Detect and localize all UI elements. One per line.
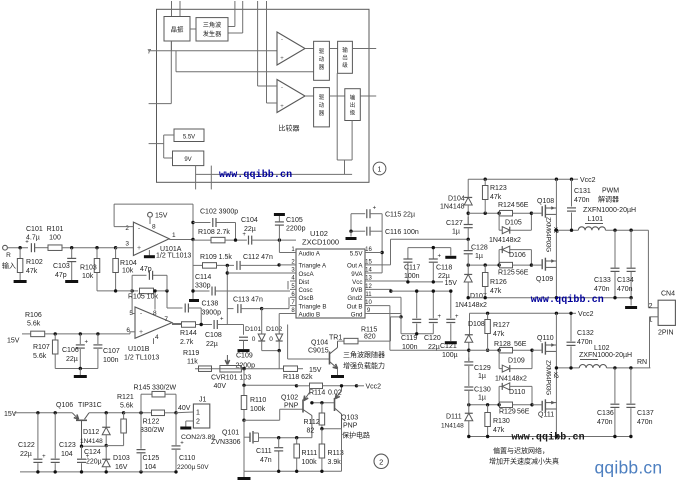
svg-text:D106: D106 — [509, 252, 526, 259]
regulator 9V box — [173, 151, 204, 166]
svg-text:D111: D111 — [446, 414, 462, 421]
U102 pin 16 5.5V — [365, 252, 372, 254]
wire audio A into pin 1 — [278, 240, 280, 252]
svg-text:40V: 40V — [178, 405, 191, 412]
svg-text:2.7k: 2.7k — [180, 339, 194, 346]
wire input line — [7, 247, 28, 249]
wire pin16 stub — [372, 252, 383, 254]
resistor R113 — [321, 429, 323, 444]
svg-text:8: 8 — [152, 224, 156, 231]
U102 pin 6 OscB — [290, 296, 296, 298]
svg-text:12: 12 — [365, 284, 372, 290]
ground bias network — [79, 369, 81, 376]
svg-text:PWM: PWM — [602, 188, 619, 195]
svg-text:D110: D110 — [509, 389, 525, 396]
svg-text:C120: C120 — [424, 335, 441, 342]
svg-text:C137: C137 — [637, 410, 654, 417]
resistor R118 — [284, 366, 298, 372]
svg-text:0: 0 — [252, 336, 256, 343]
resistor R130 — [487, 405, 489, 412]
svg-text:470n: 470n — [597, 419, 613, 426]
svg-text:R127: R127 — [493, 322, 510, 329]
svg-text:R129: R129 — [499, 409, 516, 416]
svg-text:1N4148: 1N4148 — [440, 204, 465, 211]
wire pin10 Out B down — [372, 305, 390, 307]
svg-text:PNP: PNP — [284, 403, 299, 410]
node C115 gnd side — [351, 213, 360, 215]
wire Q103 collector to divider — [322, 428, 342, 430]
diode D109 — [502, 365, 510, 372]
node C111 top — [277, 436, 280, 439]
svg-text:TR1: TR1 — [329, 335, 342, 342]
resistor R107 — [54, 334, 56, 340]
wire gate row upper — [468, 212, 497, 214]
svg-text:4: 4 — [155, 334, 159, 341]
svg-text:R101: R101 — [47, 226, 64, 233]
svg-text:D103: D103 — [113, 455, 130, 462]
svg-text:+: + — [280, 104, 284, 110]
node D108 bottom — [467, 349, 470, 352]
node gate Q109 — [530, 263, 533, 266]
circled number 2 — [374, 454, 388, 468]
svg-text:15V: 15V — [445, 280, 458, 287]
resistor R124 — [500, 210, 513, 216]
svg-text:3: 3 — [125, 241, 129, 248]
wire R110 node to Q102 base — [244, 419, 280, 421]
svg-text:C9015: C9015 — [308, 348, 329, 355]
svg-text:47n: 47n — [260, 457, 272, 464]
U102 pin 13 Vcc — [365, 280, 372, 282]
U102 pin 11 Gnd2 — [365, 296, 372, 298]
U102 pin 10 Out B — [365, 305, 372, 307]
wire Q101 drain rail — [259, 437, 297, 439]
svg-text:+: + — [280, 56, 284, 62]
svg-text:Q104: Q104 — [311, 340, 328, 347]
svg-text:+: + — [137, 245, 141, 252]
wire U101B pin4 stub — [153, 338, 155, 344]
node R111 top — [295, 436, 298, 439]
label Vcc2 lower — [570, 312, 576, 314]
wire bias rail to R105 — [97, 290, 132, 292]
svg-text:J1: J1 — [199, 397, 207, 404]
resistor R103 — [95, 246, 98, 249]
diode D104 — [464, 197, 472, 205]
svg-text:R145: R145 — [134, 385, 151, 392]
svg-text:1: 1 — [196, 410, 200, 417]
comparator B triangle — [277, 80, 305, 113]
svg-text:出: 出 — [350, 101, 356, 109]
capacitor C132 — [570, 313, 572, 341]
svg-text:Gnd: Gnd — [351, 311, 363, 318]
resistor R102 — [19, 248, 21, 258]
svg-text:三角波: 三角波 — [203, 21, 222, 29]
svg-text:级: 级 — [342, 61, 348, 69]
potentiometer CVR101 — [220, 366, 242, 373]
svg-text:16V: 16V — [115, 464, 128, 471]
connector J1 — [193, 404, 209, 428]
svg-text:D105: D105 — [505, 220, 522, 227]
wire R115 to gnd pin — [390, 330, 392, 341]
capacitor C122 — [37, 413, 39, 459]
resistor R105 feedback — [132, 290, 138, 292]
circled number 1 — [373, 162, 386, 175]
svg-text:Q106: Q106 — [56, 402, 73, 409]
driver block A — [314, 41, 330, 80]
svg-text:C132: C132 — [577, 330, 594, 337]
resistor R123 — [484, 179, 486, 185]
node R105 right — [165, 289, 168, 292]
svg-text:10: 10 — [365, 300, 372, 306]
svg-text:56E: 56E — [516, 270, 529, 277]
wire U101B pin8 supply — [154, 291, 156, 310]
node R104 top — [114, 246, 117, 249]
U102 pin 3 OscA — [290, 272, 296, 274]
svg-text:1µ: 1µ — [452, 229, 460, 236]
svg-text:保护电路: 保护电路 — [342, 431, 370, 440]
wire to Q104 base — [287, 325, 289, 359]
svg-text:www.qqibb.cn: www.qqibb.cn — [512, 432, 585, 444]
svg-text:2: 2 — [125, 225, 129, 232]
svg-text:2: 2 — [196, 419, 200, 426]
svg-text:TIP31C: TIP31C — [78, 402, 102, 409]
wire pin13 Vcc rail — [372, 280, 408, 282]
svg-text:1N4148x2: 1N4148x2 — [489, 237, 521, 244]
ground stub below C114 node — [189, 299, 199, 302]
ground C109 — [238, 349, 250, 352]
capacitor C112 — [236, 261, 238, 270]
U102 pin 5 Cosc — [290, 288, 296, 290]
capacitor C138 — [166, 291, 168, 308]
svg-text:Q109: Q109 — [536, 276, 553, 283]
svg-text:偏置与迟放网络，: 偏置与迟放网络， — [493, 446, 549, 455]
svg-text:C115 22µ: C115 22µ — [385, 212, 415, 219]
resistor R126 — [484, 265, 486, 272]
svg-text:2: 2 — [649, 303, 653, 310]
svg-text:ZXM64P03G: ZXM64P03G — [545, 217, 552, 252]
svg-text:器: 器 — [319, 110, 325, 117]
svg-text:+: + — [139, 329, 143, 336]
svg-text:ZXFN1000-20µH: ZXFN1000-20µH — [583, 207, 636, 214]
wire 5.5V decoupling vertical — [381, 214, 383, 273]
capacitor 47p feedback — [131, 275, 133, 291]
svg-text:Q102: Q102 — [281, 395, 298, 402]
resistor R144 — [182, 322, 196, 328]
svg-text:驱: 驱 — [319, 94, 325, 101]
capacitor C128 — [467, 239, 469, 250]
output bus upper bridge — [555, 179, 557, 298]
node OscA — [226, 271, 229, 274]
wire comparator B output — [305, 95, 314, 97]
wire base to Q103 — [312, 402, 335, 404]
regulator 5.5V box — [174, 129, 204, 142]
svg-text:动: 动 — [319, 56, 325, 63]
svg-text:R107: R107 — [33, 344, 50, 351]
wire gate row lower of lower bridge — [469, 404, 500, 406]
wire pin8 to D102 — [279, 313, 290, 315]
svg-text:22µ: 22µ — [244, 226, 256, 233]
capacitor C116 — [351, 230, 365, 232]
svg-text:47k: 47k — [26, 268, 38, 275]
svg-text:Dist: Dist — [299, 279, 310, 286]
svg-text:+: + — [180, 441, 184, 447]
node R105 left — [130, 289, 133, 292]
svg-text:100µ: 100µ — [442, 352, 458, 359]
node U101A output — [191, 238, 194, 241]
wire J1 pin2 ground — [186, 420, 194, 422]
svg-text:22µ: 22µ — [428, 344, 440, 351]
inductor L102 — [579, 364, 606, 367]
svg-text:56E: 56E — [517, 409, 530, 416]
triangle wave generator block 三角波发生器 — [196, 18, 228, 41]
svg-text:14: 14 — [365, 268, 372, 274]
wire pin9 Gnd — [372, 313, 402, 315]
svg-text:C134: C134 — [617, 277, 634, 284]
capacitor C109 — [239, 336, 248, 338]
wire diode bottoms — [262, 350, 280, 352]
node diode bottom junction — [278, 349, 281, 352]
resistor R145 330/2W — [140, 394, 142, 413]
svg-text:47k: 47k — [493, 331, 505, 338]
svg-text:C123: C123 — [59, 442, 76, 449]
U102 pin 1 Audio A — [290, 252, 296, 254]
wire 9VB rail — [391, 290, 451, 292]
svg-text:R123: R123 — [490, 185, 507, 192]
svg-text:C112 47n: C112 47n — [243, 254, 273, 261]
svg-text:22µ: 22µ — [66, 356, 78, 363]
node C113 right — [260, 307, 263, 310]
svg-text:330/2W: 330/2W — [152, 385, 177, 392]
resistor R119 — [199, 366, 212, 372]
capacitor C125 — [140, 413, 142, 449]
svg-text:级: 级 — [350, 109, 356, 117]
svg-text:动: 动 — [319, 102, 325, 109]
svg-text:330/2W: 330/2W — [140, 427, 165, 434]
ground C103 — [65, 280, 78, 283]
svg-text:5.6k: 5.6k — [120, 403, 134, 410]
svg-text:1µ: 1µ — [478, 373, 486, 380]
U102 pin 7 Triangle B — [290, 305, 296, 307]
ground U101A — [148, 250, 150, 256]
svg-text:CON2/3.89: CON2/3.89 — [181, 434, 215, 441]
svg-text:OscB: OscB — [299, 295, 314, 302]
resistor R127 — [487, 313, 489, 319]
svg-text:47k: 47k — [490, 194, 502, 201]
wire comparator A output — [305, 48, 314, 50]
U102 pin 8 Audio B — [290, 313, 296, 315]
svg-text:10k: 10k — [122, 268, 134, 275]
wire 5.5V 9V common left brace — [164, 134, 174, 136]
resistor R128 — [500, 347, 513, 353]
svg-text:+: + — [455, 314, 459, 320]
svg-text:3.9k: 3.9k — [328, 459, 342, 466]
diode D107 — [467, 265, 469, 274]
comparator A triangle — [277, 32, 305, 65]
svg-text:1N4148: 1N4148 — [80, 438, 103, 445]
wire U101A output node down — [192, 240, 194, 301]
svg-text:R122: R122 — [143, 419, 160, 426]
node C103 — [70, 246, 73, 249]
node C106 top — [79, 332, 82, 335]
wire gate row upper of lower bridge — [469, 349, 500, 351]
capacitor C118 — [432, 248, 434, 259]
svg-text:82: 82 — [307, 428, 315, 435]
U102 pin 4 Dist — [290, 280, 296, 282]
U102 pin 12 9VB — [365, 288, 372, 290]
svg-text:47k: 47k — [490, 288, 502, 295]
resistor R125 — [500, 262, 513, 268]
svg-text:三角波跟随器: 三角波跟随器 — [343, 350, 385, 359]
svg-text:8: 8 — [153, 310, 157, 317]
resistor R122 330/2W — [152, 410, 165, 416]
svg-text:R110: R110 — [250, 397, 266, 404]
wire pin6 — [130, 331, 135, 333]
capacitor C110 — [175, 413, 177, 445]
wire gate row lower of upper bridge — [468, 264, 497, 266]
wire L102 to output caps — [607, 367, 651, 369]
svg-text:R103: R103 — [80, 265, 97, 272]
svg-text:470n: 470n — [637, 419, 653, 426]
U102 pin 15 Out A — [365, 264, 372, 266]
svg-text:C104: C104 — [241, 217, 258, 224]
supply 15V terminal U101A — [148, 212, 153, 217]
svg-text:输: 输 — [350, 94, 356, 102]
wire CVR to R118 — [280, 368, 284, 370]
svg-text:Vcc: Vcc — [352, 279, 362, 286]
U102 pin 14 9VA — [365, 272, 372, 274]
capacitor C105 — [278, 226, 280, 241]
node pin2 entry — [277, 263, 280, 266]
resistor R101 — [48, 245, 62, 251]
wire pin11 Gnd2 — [372, 296, 402, 298]
svg-text:R115: R115 — [361, 327, 377, 334]
wire J1 pin1 to 40V — [176, 411, 193, 414]
wire upper bridge ground rail — [468, 297, 631, 299]
capacitor C129 — [468, 358, 470, 362]
svg-text:10k: 10k — [82, 273, 94, 280]
node C102 left — [191, 221, 194, 224]
capacitor C120 — [432, 291, 434, 318]
svg-text:C107: C107 — [103, 348, 120, 355]
svg-text:C129: C129 — [474, 365, 491, 372]
svg-text:R118 62k: R118 62k — [283, 374, 313, 381]
svg-text:820: 820 — [364, 334, 376, 341]
svg-text:15V: 15V — [7, 338, 20, 345]
node R127 bottom — [486, 349, 489, 352]
svg-text:15V: 15V — [4, 411, 17, 418]
wire lower bridge vcc rail — [470, 312, 570, 314]
svg-text:11: 11 — [365, 292, 372, 298]
capacitor C131 — [570, 178, 573, 181]
svg-text:PNP: PNP — [343, 423, 358, 430]
svg-text:C108: C108 — [205, 332, 222, 339]
wire 40V rail — [124, 412, 152, 414]
svg-text:qqibb.cn: qqibb.cn — [595, 458, 663, 478]
svg-text:470n: 470n — [617, 286, 633, 293]
capacitor C124 — [82, 445, 107, 447]
svg-text:+: + — [373, 206, 377, 212]
svg-text:47k: 47k — [493, 427, 505, 434]
svg-text:R109 1.5k: R109 1.5k — [200, 254, 232, 261]
driver block B — [314, 88, 330, 127]
ground C121 — [445, 341, 457, 344]
svg-text:5.5V: 5.5V — [183, 135, 195, 141]
svg-text:Audio B: Audio B — [299, 311, 321, 318]
svg-text:D112: D112 — [83, 429, 99, 436]
svg-text:发生器: 发生器 — [203, 30, 222, 38]
node out B mid — [468, 378, 470, 387]
diode D105 — [502, 227, 510, 234]
wire output B to right edge — [360, 95, 376, 97]
svg-text:100n: 100n — [404, 273, 420, 280]
wire stubs above block diagram — [171, 1, 173, 17]
svg-text:C122: C122 — [18, 442, 35, 449]
wire 40V tap down — [242, 367, 245, 370]
node R109 C112 — [226, 264, 229, 267]
svg-text:9VB: 9VB — [351, 287, 363, 294]
diode D106 — [498, 250, 500, 266]
svg-text:56E: 56E — [516, 202, 529, 209]
ground Q104 emitter — [331, 375, 344, 378]
svg-text:C133: C133 — [594, 277, 611, 284]
svg-text:330p: 330p — [195, 283, 211, 290]
wire lower comparator input — [176, 71, 314, 73]
capacitor C103 — [71, 248, 73, 258]
svg-text:ZVN3306: ZVN3306 — [211, 439, 241, 446]
svg-text:Q110: Q110 — [537, 335, 554, 342]
svg-text:+: + — [242, 232, 246, 238]
svg-text:Triangle B: Triangle B — [299, 303, 327, 310]
svg-text:C109: C109 — [236, 352, 253, 359]
svg-text:1: 1 — [172, 232, 176, 239]
svg-text:R114: R114 — [309, 390, 325, 397]
svg-text:D104: D104 — [448, 196, 465, 203]
node C107 top — [96, 332, 99, 335]
svg-text:1/2 TL1013: 1/2 TL1013 — [156, 253, 191, 260]
svg-text:100n: 100n — [402, 344, 418, 351]
resistor R114 — [297, 385, 310, 387]
wire Vcc 15V rail bottom — [408, 281, 443, 283]
capacitor C108 — [213, 320, 215, 329]
wire pin12 9VB rail — [372, 288, 391, 290]
wire driver A to output stage A — [329, 48, 337, 50]
svg-text:2200p: 2200p — [286, 226, 306, 233]
svg-text:15V: 15V — [309, 367, 322, 374]
node R110 bottom — [242, 419, 245, 422]
svg-text:470n: 470n — [594, 286, 610, 293]
IC U102 ZXCD1000 body — [296, 249, 365, 318]
svg-text:Triangle A: Triangle A — [299, 263, 328, 270]
svg-text:2200µ 50V: 2200µ 50V — [177, 464, 209, 471]
wire pin15 Out A to bridge — [372, 264, 391, 266]
wire CVR101 rail — [195, 368, 280, 370]
node Q102 rail — [295, 384, 298, 387]
svg-text:C136: C136 — [597, 410, 614, 417]
wire D104 chain vertical — [467, 179, 469, 197]
svg-text:11k: 11k — [187, 359, 198, 366]
capacitor C102 — [193, 222, 211, 224]
svg-text:R112: R112 — [304, 419, 320, 426]
wire U101B output — [172, 323, 181, 325]
svg-text:C118: C118 — [436, 265, 452, 272]
capacitor C115 — [360, 213, 365, 215]
U102 pin6 pin7 bracket — [288, 297, 290, 305]
node D105 left top — [497, 212, 500, 215]
svg-text:R: R — [6, 252, 11, 259]
svg-text:Vcc2: Vcc2 — [366, 384, 382, 391]
capacitor C104 — [248, 236, 250, 245]
wire R101 to node — [62, 247, 116, 249]
capacitor C119 — [416, 291, 418, 318]
